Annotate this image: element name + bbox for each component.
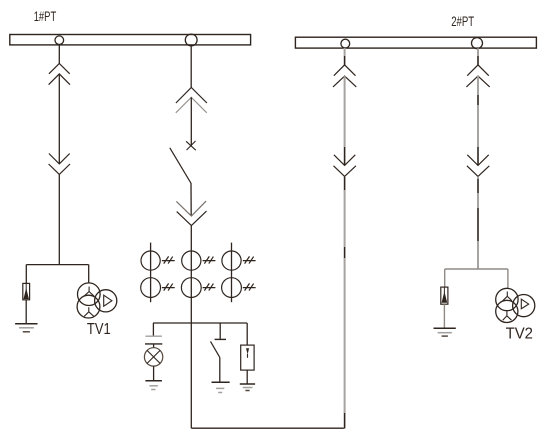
wire drop to lamp branch: [152, 323, 154, 336]
wire drop to arrester F1: [25, 265, 27, 284]
voltage transformer TV2: [496, 288, 535, 322]
current transformer CT row1 col1: [141, 251, 175, 270]
wire branch1 bus to upper plug contact: [58, 45, 60, 64]
wire branch2 through CT group to junction: [190, 226, 192, 324]
wire bottom link horizontal: [191, 427, 344, 429]
plug contact chevron bottom-2 branch1: [49, 164, 70, 174]
wire branch3 bus to upper plug contact: [344, 48, 346, 65]
bus 1#PT: [10, 35, 251, 45]
capacitor plate top: [145, 335, 162, 337]
capacitor plate bottom: [145, 343, 162, 345]
wire arrester F2 to ground: [246, 370, 248, 384]
wire arrester F3 to ground: [443, 304, 445, 328]
TV2 wye symbol bottom winding: [503, 311, 512, 320]
current transformer CT row2 col3: [222, 278, 256, 298]
surge arrester F2 body: [241, 345, 254, 370]
current transformer CT row2 col2: [181, 278, 215, 298]
wire branch1 breaker truck stem: [58, 74, 60, 164]
plug contact chevron top-1 branch1: [49, 64, 70, 74]
wire drop to arrester F2: [246, 323, 248, 345]
wire lamp to ground: [153, 366, 155, 381]
wire drop to TV2: [507, 269, 509, 288]
ground under F1: [15, 323, 37, 325]
ground under F3: [434, 327, 456, 329]
wire drop to earthing switch: [219, 323, 221, 339]
TV1 wye symbol top winding: [84, 287, 94, 297]
current transformer CT row2 col1: [141, 278, 175, 298]
plug contact chevron bottom-2 branch3: [334, 166, 356, 177]
wire branch3 truck stem: [344, 76, 346, 165]
plug contact chevron top-2 branch3: [333, 76, 356, 87]
node circle branch 4 on bus 2: [472, 38, 483, 49]
plug contact chevron top-1 branch2: [176, 88, 207, 104]
wire plate to lamp: [153, 344, 155, 348]
earthing switch blade: [211, 341, 220, 357]
wire branch4 tee horizontal: [445, 268, 508, 270]
current transformer CT row1 col3: [222, 251, 256, 270]
plug contact chevron top-2 branch2: [176, 97, 207, 113]
plug contact chevron bottom-2 branch2: [177, 211, 207, 225]
CT column right conductor: [231, 243, 233, 303]
node circle branch 3 on bus 2: [341, 39, 350, 48]
ground under earthing switch: [212, 381, 230, 383]
svg-text:1#PT: 1#PT: [34, 8, 57, 24]
svg-text:TV1: TV1: [87, 321, 111, 338]
plug contact chevron bottom-1 branch4: [467, 155, 488, 166]
ground under F2: [240, 383, 255, 385]
surge arrester F1 body: [23, 283, 30, 299]
plug contact chevron top-1 branch4: [467, 65, 489, 76]
wire drop to TV1: [88, 265, 90, 284]
bus 2#PT: [295, 37, 536, 48]
wire switch to ground: [219, 357, 221, 382]
TV1 delta symbol right winding: [104, 295, 112, 306]
current transformer CT row1 col2: [182, 251, 216, 270]
wire branch2 lower run: [190, 323, 192, 428]
voltage transformer TV1: [77, 283, 117, 318]
wire secondary junction horizontal: [153, 322, 247, 324]
plug contact chevron bottom-1 branch2: [176, 201, 206, 216]
wire arrester F1 to ground: [25, 300, 27, 324]
indicator lamp HL: [144, 348, 162, 366]
plug contact chevron top-1 branch3: [334, 65, 356, 76]
plug contact chevron top-2 branch4: [466, 76, 489, 87]
wire branch4 bus to upper plug contact: [477, 48, 479, 65]
disconnector open blade: [170, 148, 191, 183]
plug contact chevron bottom-1 branch1: [49, 154, 70, 164]
svg-text:2#PT: 2#PT: [451, 13, 474, 29]
plug contact chevron bottom-1 branch3: [334, 155, 355, 166]
wire branch2 stem to switch: [190, 97, 192, 146]
plug contact chevron top-2 branch1: [49, 74, 70, 85]
surge arrester F2 arrow: [246, 348, 249, 354]
wire branch2 bus to upper plug contact: [190, 46, 192, 88]
disconnector fixed contact X: [186, 141, 196, 150]
node circle branch 2 on bus 1: [185, 34, 197, 46]
earthing switch fixed contact bar: [215, 338, 226, 340]
TV1 wye symbol bottom winding: [84, 307, 94, 316]
surge arrester F1 arrow: [25, 284, 27, 291]
ground under lamp: [145, 380, 162, 382]
TV2 wye symbol top winding: [503, 292, 512, 301]
TV2 delta symbol right winding: [521, 299, 528, 309]
wire branch3 long run down to link: [344, 176, 346, 428]
wire blade hinge down: [190, 183, 192, 216]
svg-text:TV2: TV2: [506, 325, 533, 342]
surge arrester F3 body: [441, 287, 448, 304]
wire branch1 down to junction: [58, 174, 60, 264]
CT column left conductor: [150, 243, 152, 303]
wire branch4 down to junction: [477, 176, 479, 269]
wire branch1 tee horizontal: [26, 264, 88, 266]
node circle branch 1 on bus 1: [55, 36, 64, 45]
surge arrester F3 arrow: [443, 288, 445, 295]
wire drop to arrester F3: [444, 269, 446, 287]
wire branch4 truck stem: [477, 76, 479, 165]
plug contact chevron bottom-2 branch4: [467, 166, 489, 177]
